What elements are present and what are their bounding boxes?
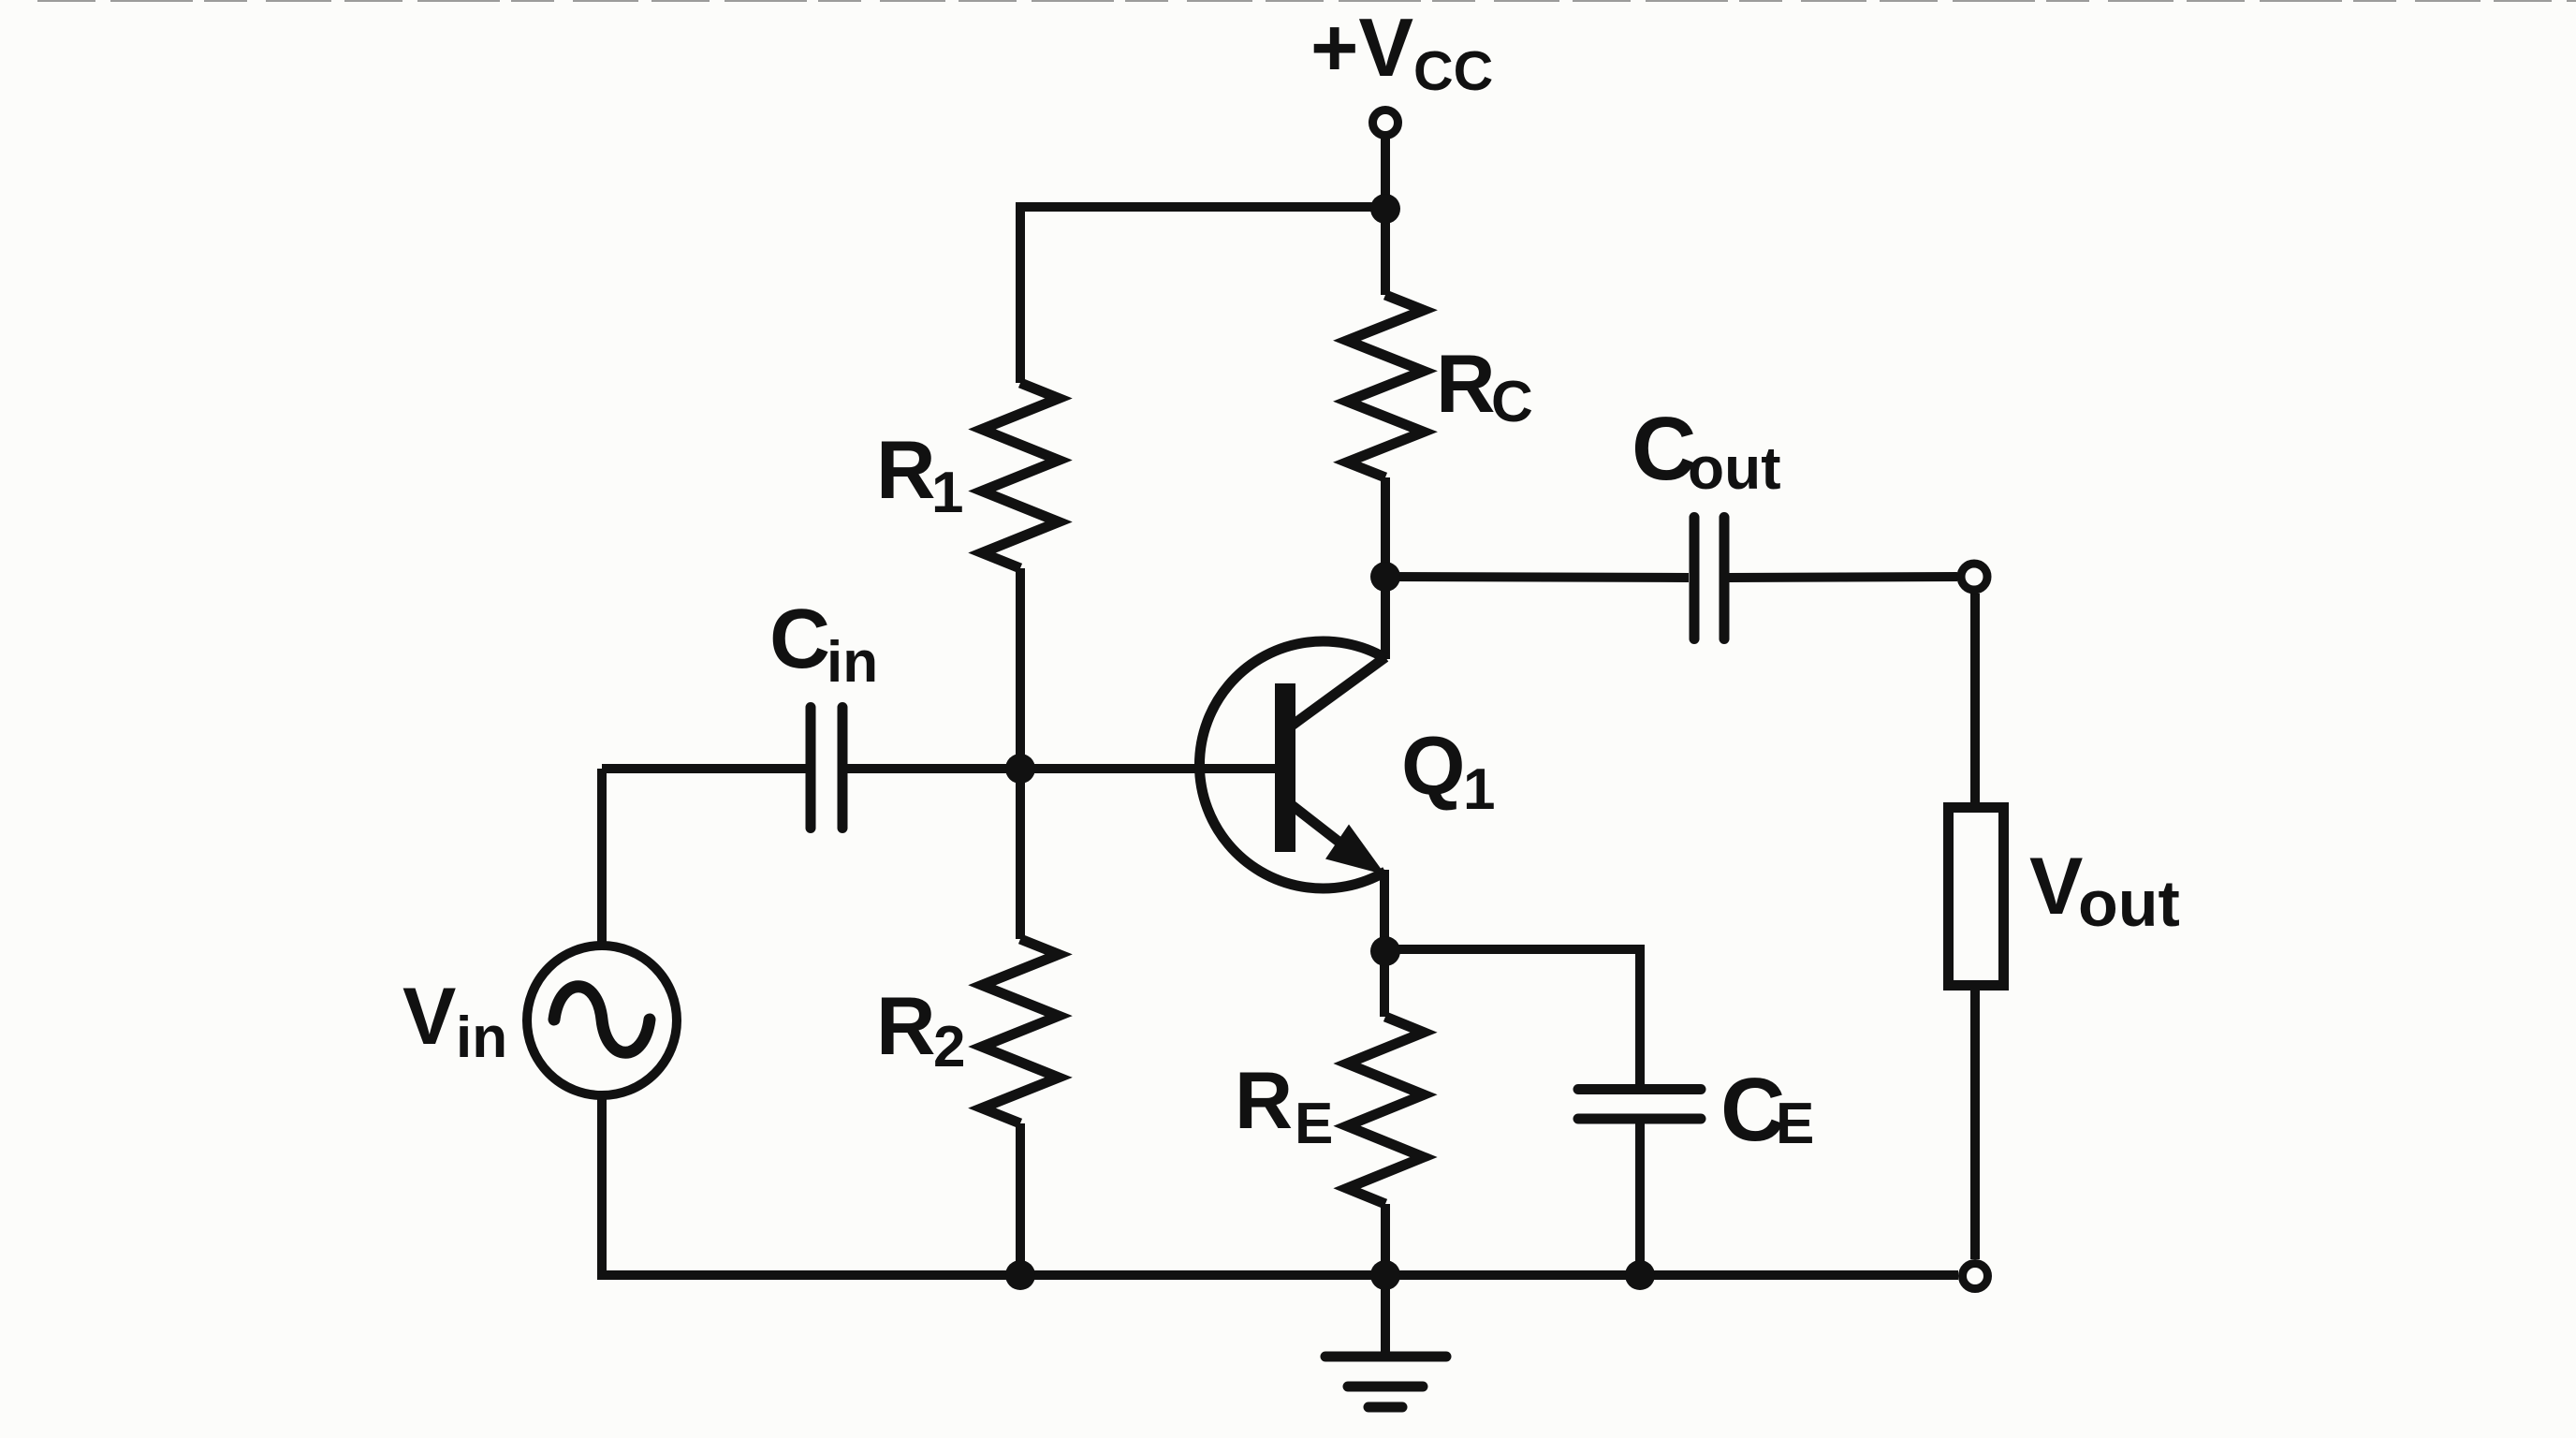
- svg-text:1: 1: [931, 461, 963, 525]
- svg-text:Q: Q: [1401, 719, 1465, 812]
- svg-text:+V: +V: [1310, 1, 1413, 94]
- svg-text:2: 2: [933, 1015, 965, 1079]
- svg-text:in: in: [827, 630, 878, 695]
- svg-text:CC: CC: [1413, 40, 1493, 102]
- svg-text:out: out: [2078, 867, 2180, 940]
- svg-text:in: in: [456, 1005, 507, 1070]
- svg-text:V: V: [402, 972, 456, 1062]
- svg-text:R: R: [876, 423, 936, 516]
- svg-text:C: C: [1491, 370, 1533, 434]
- svg-text:C: C: [1632, 399, 1696, 499]
- svg-text:E: E: [1295, 1092, 1333, 1156]
- svg-text:1: 1: [1463, 757, 1495, 822]
- svg-text:R: R: [1235, 1056, 1293, 1146]
- svg-text:V: V: [2029, 842, 2083, 932]
- svg-text:E: E: [1776, 1092, 1814, 1156]
- svg-text:out: out: [1688, 434, 1781, 502]
- svg-text:C: C: [769, 593, 830, 686]
- svg-text:R: R: [1436, 337, 1496, 430]
- svg-text:R: R: [876, 979, 936, 1072]
